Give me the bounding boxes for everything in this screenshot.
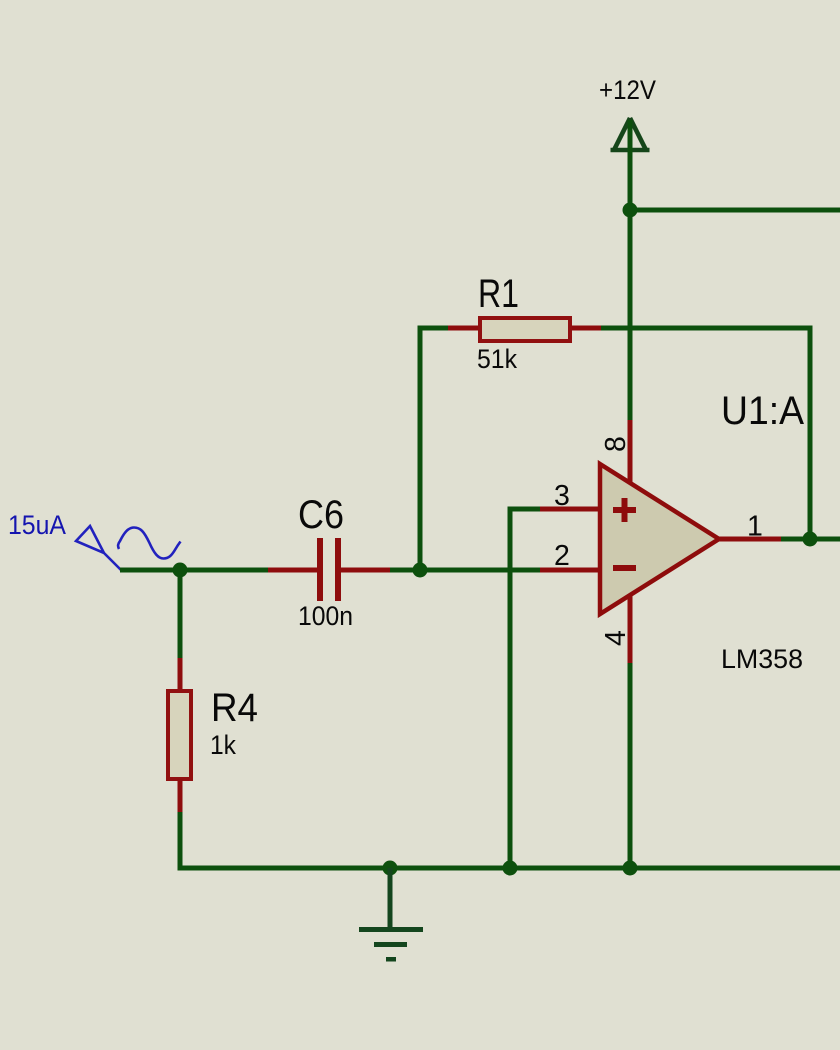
- svg-text:LM358: LM358: [721, 644, 803, 674]
- op-amp minus symbol: [613, 565, 636, 571]
- wire non-inverting vertical to ground rail: [508, 507, 513, 870]
- pin 4 red stub below op-amp: [628, 596, 633, 663]
- svg-text:R4: R4: [211, 686, 258, 730]
- capacitor C6 plate right: [335, 538, 341, 601]
- op-amp U1 triangle body: [600, 464, 719, 614]
- resistor R4 lead bottom: [178, 779, 183, 812]
- pin 3 red stub: [540, 507, 600, 512]
- generator sine wave: [118, 528, 180, 559]
- resistor R1 lead right: [572, 326, 601, 331]
- wire pin 4 to ground rail: [628, 663, 633, 870]
- pin 2 red stub: [540, 568, 600, 573]
- wire ground rail: [178, 866, 840, 871]
- ground stem: [388, 868, 393, 929]
- svg-text:51k: 51k: [477, 344, 517, 374]
- node junction at +12V rail: [623, 203, 638, 218]
- svg-text:+12V: +12V: [599, 75, 656, 105]
- node junction C6 / feedback: [413, 563, 428, 578]
- svg-text:15uA: 15uA: [8, 510, 66, 540]
- power symbol +12V arrow: [611, 118, 650, 150]
- capacitor C6 lead left: [268, 568, 317, 573]
- svg-text:3: 3: [554, 480, 570, 512]
- svg-text:100n: 100n: [298, 601, 353, 631]
- ground bar 1: [359, 927, 423, 932]
- svg-text:1k: 1k: [210, 730, 236, 760]
- svg-text:1: 1: [747, 511, 763, 543]
- capacitor C6 lead right: [341, 568, 390, 573]
- ground bar 2: [374, 942, 407, 947]
- pin 1 output red stub: [719, 537, 781, 542]
- resistor R4 body: [168, 691, 191, 779]
- node junction output: [803, 532, 818, 547]
- node junction ground symbol: [383, 861, 398, 876]
- svg-text:4: 4: [600, 630, 632, 646]
- generator probe triangle: [76, 526, 121, 570]
- node junction pin4 column: [623, 861, 638, 876]
- node junction pin3 column: [503, 861, 518, 876]
- wire +12V down to op-amp pin 8: [628, 210, 633, 420]
- resistor R1 body: [480, 318, 570, 341]
- svg-text:C6: C6: [298, 493, 344, 537]
- wire C6 right to junction: [390, 568, 420, 573]
- svg-text:U1:A: U1:A: [721, 389, 804, 433]
- wire output column vertical: [808, 326, 813, 542]
- resistor R4 lead top: [178, 658, 183, 691]
- capacitor C6 plate left: [317, 538, 323, 601]
- svg-text:R1: R1: [478, 272, 519, 316]
- svg-text:8: 8: [600, 436, 632, 452]
- wire non-inverting corner: [508, 507, 541, 512]
- node junction input / R4: [173, 563, 188, 578]
- wire R4 top vertical: [178, 570, 183, 658]
- wire R1 right to output column: [601, 326, 812, 331]
- wire R4 bottom vertical: [178, 812, 183, 870]
- wire to op-amp inverting input: [420, 568, 540, 573]
- wire input from generator to C6: [120, 568, 270, 573]
- wire feedback left vertical: [418, 326, 423, 573]
- resistor R1 lead left: [448, 326, 478, 331]
- svg-text:2: 2: [554, 540, 570, 572]
- wire +12V rail horizontal to right edge: [630, 208, 840, 213]
- ground bar 3: [386, 957, 396, 962]
- wire feedback top left corner: [418, 326, 449, 331]
- wire output to right edge: [781, 537, 840, 542]
- op-amp plus symbol: [613, 498, 636, 522]
- pin 8 red stub into op-amp: [628, 420, 633, 485]
- wire +12V vertical to junction: [628, 120, 633, 212]
